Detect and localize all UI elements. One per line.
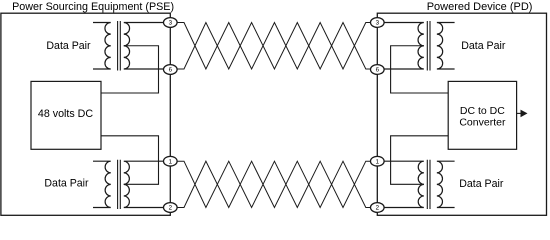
transformer T3 line-side winding (PD top)	[384, 23, 424, 70]
twisted pair bottom, wire D (pin2-pin2)	[177, 161, 370, 207]
pin 1 left	[164, 156, 178, 166]
transformer T2 line-side winding	[124, 161, 164, 207]
wire: T4 center tap to DC-DC input -	[391, 136, 449, 185]
pin 6 right	[371, 65, 385, 75]
svg-text:Data Pair: Data Pair	[44, 177, 89, 189]
svg-text:Data Pair: Data Pair	[46, 40, 91, 52]
arrow: DC-DC output	[517, 112, 521, 114]
svg-text:3: 3	[169, 20, 173, 27]
pin 2 left	[164, 203, 178, 213]
svg-text:Powered Device (PD): Powered Device (PD)	[427, 1, 533, 13]
PD outer box	[377, 13, 546, 215]
pin 6 left	[164, 65, 178, 75]
transformer T2 core	[118, 160, 121, 209]
svg-text:Data Pair: Data Pair	[459, 178, 504, 190]
PSE outer box	[1, 13, 170, 215]
pin 3 right	[371, 18, 385, 28]
svg-text:DC to DC: DC to DC	[460, 105, 505, 117]
transformer T4 core	[427, 160, 430, 209]
transformer T2 data-side winding (PSE bottom)	[93, 161, 111, 207]
svg-text:Converter: Converter	[459, 117, 506, 129]
transformer T1 data-side winding (PSE top)	[93, 23, 111, 70]
twisted pair bottom, wire C (pin1-pin1)	[177, 161, 370, 207]
transformer T4 line-side winding (PD bottom)	[384, 161, 424, 207]
twisted pair top, wire B (pin6-pin6)	[177, 23, 370, 70]
svg-text:Power Sourcing Equipment (PSE): Power Sourcing Equipment (PSE)	[12, 1, 174, 13]
svg-text:48 volts DC: 48 volts DC	[38, 108, 94, 120]
transformer T4 data-side winding	[437, 161, 455, 207]
pin 2 right	[371, 203, 385, 213]
svg-text:1: 1	[169, 158, 173, 165]
svg-text:6: 6	[169, 67, 173, 74]
pin 1 right	[371, 156, 385, 166]
svg-text:1: 1	[376, 158, 380, 165]
svg-text:2: 2	[376, 205, 380, 212]
transformer T1 line-side winding	[124, 23, 164, 70]
svg-text:6: 6	[376, 67, 380, 74]
wire: T2 center tap to 48V-	[101, 136, 159, 185]
transformer T1 core	[118, 21, 121, 71]
transformer T3 data-side winding	[437, 23, 455, 70]
transformer T3 core	[427, 21, 430, 71]
DC to DC Converter box	[448, 81, 516, 149]
wire: T1 center tap to 48V+	[101, 46, 159, 93]
svg-text:3: 3	[376, 20, 380, 27]
48 volts DC box	[31, 81, 101, 149]
pin 3 left	[164, 18, 178, 28]
svg-text:Data Pair: Data Pair	[461, 40, 506, 52]
wire: T3 center tap to DC-DC input +	[391, 46, 449, 93]
svg-text:2: 2	[169, 205, 173, 212]
twisted pair top, wire A (pin3-pin3)	[177, 23, 370, 70]
